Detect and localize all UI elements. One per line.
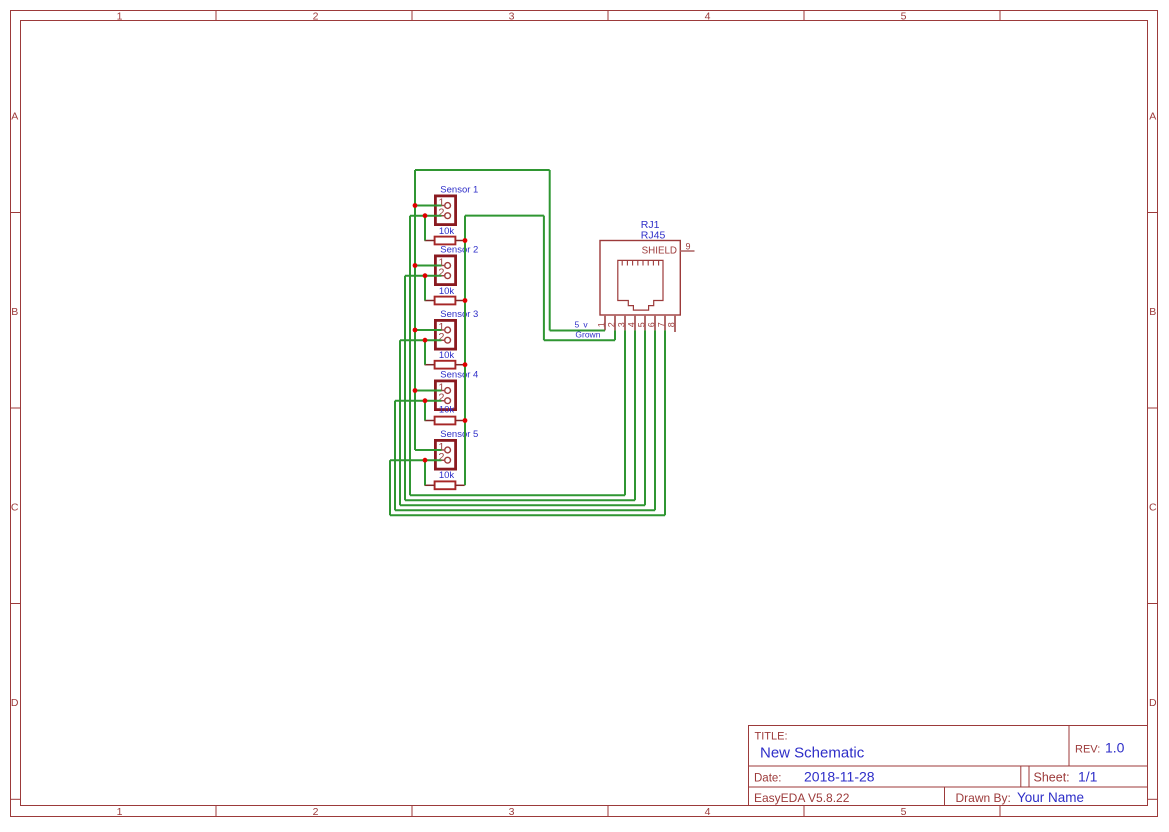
wire 5V to RJ45 pin1 bbox=[550, 330, 605, 332]
wire Sensor 3 signal bottom bbox=[400, 504, 645, 506]
junction Sensor 3 pin2 / R3 bbox=[423, 338, 428, 343]
svg-text:2018-11-28: 2018-11-28 bbox=[804, 769, 875, 785]
svg-text:5: 5 bbox=[901, 11, 907, 23]
junction Sensor 2 pin2 / R2 bbox=[423, 273, 428, 278]
wire Sensor 1 pin2 to R1 bbox=[424, 216, 426, 241]
wire Sensor 5 signal to RJ45 pin 7 bbox=[664, 330, 666, 515]
connector RJ1 RJ45 bbox=[600, 241, 680, 316]
wire Sensor 4 signal down bbox=[394, 401, 396, 511]
wire Sensor 4 pin2 horizontal bbox=[395, 400, 442, 402]
resistor R2 10k bbox=[425, 297, 465, 305]
wire Sensor 2 signal to RJ45 pin 4 bbox=[634, 330, 636, 500]
svg-text:Sheet:: Sheet: bbox=[1034, 771, 1070, 785]
svg-text:4: 4 bbox=[705, 806, 711, 818]
svg-text:10k: 10k bbox=[439, 286, 455, 297]
junction 5V / Sensor 4 pin1 bbox=[413, 388, 418, 393]
wire Sensor 1 signal down bbox=[409, 216, 411, 496]
wire 5V vertical bus bbox=[414, 170, 416, 450]
RJ45 pin numbers 1-8 bbox=[596, 322, 676, 327]
svg-text:9: 9 bbox=[686, 242, 691, 252]
svg-text:2: 2 bbox=[438, 332, 444, 344]
junction 5V / Sensor 3 pin1 bbox=[413, 328, 418, 333]
svg-text:8: 8 bbox=[666, 322, 676, 327]
wire GND horizontal bbox=[465, 215, 544, 217]
title block bbox=[749, 726, 1148, 806]
svg-text:Sensor 5: Sensor 5 bbox=[440, 429, 478, 440]
svg-text:5 v: 5 v bbox=[575, 319, 589, 329]
svg-text:Date:: Date: bbox=[754, 773, 782, 785]
wire 5V to Sensor 2 pin1 bbox=[415, 265, 442, 267]
wire Sensor 2 pin2 horizontal bbox=[405, 275, 442, 277]
svg-text:Your Name: Your Name bbox=[1017, 790, 1084, 805]
wire Sensor 2 signal bottom bbox=[405, 499, 635, 501]
junction GND / R2 bbox=[463, 298, 468, 303]
wire Sensor 5 signal down bbox=[389, 460, 391, 515]
connector P4 (Sensor 4) bbox=[435, 381, 455, 410]
svg-text:4: 4 bbox=[626, 322, 636, 327]
svg-text:2: 2 bbox=[438, 267, 444, 279]
wire Sensor 5 pin2 to R5 bbox=[424, 460, 426, 485]
svg-text:10k: 10k bbox=[439, 470, 455, 481]
svg-text:5: 5 bbox=[901, 806, 907, 818]
svg-text:RJ45: RJ45 bbox=[641, 230, 666, 242]
svg-text:C: C bbox=[1149, 501, 1157, 513]
svg-text:2: 2 bbox=[438, 452, 444, 464]
junction Sensor 4 pin2 / R4 bbox=[423, 398, 428, 403]
wire Sensor 5 signal bottom bbox=[390, 514, 665, 516]
junction 5V / Sensor 1 pin1 bbox=[413, 203, 418, 208]
wire 5V top horizontal bbox=[415, 169, 550, 171]
svg-text:SHIELD: SHIELD bbox=[642, 245, 677, 256]
wire Sensor 4 signal to RJ45 pin 6 bbox=[654, 330, 656, 510]
resistor R4 10k bbox=[425, 417, 465, 425]
wire Sensor 3 pin2 to R3 bbox=[424, 340, 426, 365]
junction Sensor 5 pin2 / R5 bbox=[423, 458, 428, 463]
connector P3 (Sensor 3) bbox=[435, 320, 455, 349]
svg-text:TITLE:: TITLE: bbox=[755, 731, 788, 743]
resistor R1 10k bbox=[425, 237, 465, 245]
connector P5 (Sensor 5) bbox=[435, 440, 455, 469]
svg-text:1: 1 bbox=[117, 806, 123, 818]
svg-text:New Schematic: New Schematic bbox=[760, 745, 865, 762]
svg-text:Sensor 2: Sensor 2 bbox=[440, 245, 478, 256]
junction 5V / Sensor 2 pin1 bbox=[413, 263, 418, 268]
RJ45 jack teeth bbox=[622, 260, 658, 265]
connector P2 (Sensor 2) bbox=[435, 256, 455, 285]
svg-text:C: C bbox=[11, 501, 19, 513]
svg-text:D: D bbox=[11, 697, 19, 709]
svg-text:B: B bbox=[11, 306, 18, 318]
svg-text:3: 3 bbox=[616, 322, 626, 327]
svg-text:3: 3 bbox=[509, 11, 515, 23]
wire GND vertical bus bbox=[464, 216, 466, 486]
wire Sensor 4 signal bottom bbox=[395, 509, 655, 511]
wire GND to RJ45 pin2 bbox=[544, 339, 615, 341]
svg-text:Sensor 1: Sensor 1 bbox=[440, 185, 478, 196]
svg-text:Sensor 4: Sensor 4 bbox=[440, 370, 478, 381]
junction GND / R3 bbox=[463, 362, 468, 367]
svg-text:6: 6 bbox=[646, 322, 656, 327]
svg-text:2: 2 bbox=[438, 207, 444, 219]
wire Sensor 5 pin2 horizontal bbox=[390, 459, 442, 461]
RJ45 pins 1-8 stubs bbox=[605, 316, 675, 332]
wire Sensor 1 pin2 horizontal bbox=[410, 215, 442, 217]
svg-text:10k: 10k bbox=[439, 350, 455, 361]
svg-text:REV:: REV: bbox=[1075, 744, 1100, 756]
svg-text:1/1: 1/1 bbox=[1078, 769, 1098, 785]
svg-text:7: 7 bbox=[656, 322, 666, 327]
svg-text:A: A bbox=[1149, 111, 1156, 123]
wire Sensor 4 pin2 to R4 bbox=[424, 401, 426, 421]
wire 5V to Sensor 1 pin1 bbox=[415, 205, 442, 207]
svg-text:Grown: Grown bbox=[575, 329, 600, 339]
svg-text:1: 1 bbox=[117, 11, 123, 23]
wire Sensor 2 signal down bbox=[404, 276, 406, 501]
labels RJ1 / RJ45 bbox=[641, 219, 666, 242]
svg-text:1.0: 1.0 bbox=[1105, 740, 1125, 756]
svg-text:3: 3 bbox=[509, 806, 515, 818]
junction Sensor 1 pin2 / R1 bbox=[423, 213, 428, 218]
svg-text:Sensor 3: Sensor 3 bbox=[440, 309, 478, 320]
svg-text:2: 2 bbox=[438, 392, 444, 404]
junction GND / R4 bbox=[463, 418, 468, 423]
svg-text:2: 2 bbox=[606, 322, 616, 327]
svg-text:4: 4 bbox=[705, 11, 711, 23]
resistor R3 10k bbox=[425, 361, 465, 369]
svg-text:Drawn By:: Drawn By: bbox=[956, 791, 1011, 805]
svg-text:2: 2 bbox=[313, 11, 319, 23]
wire 5V to Sensor 5 pin1 bbox=[415, 449, 442, 451]
wire 5V down to RJ45 bbox=[549, 170, 551, 331]
pin 9 SHIELD stub bbox=[680, 250, 694, 252]
svg-text:B: B bbox=[1149, 306, 1156, 318]
resistor R5 10k bbox=[425, 481, 465, 489]
wire 5V to Sensor 3 pin1 bbox=[415, 329, 442, 331]
svg-text:1: 1 bbox=[596, 322, 606, 327]
svg-text:10k: 10k bbox=[439, 404, 455, 415]
wire Sensor 3 signal to RJ45 pin 5 bbox=[644, 330, 646, 505]
connector P1 (Sensor 1) bbox=[435, 196, 455, 225]
svg-text:5: 5 bbox=[636, 322, 646, 327]
wire Sensor 1 signal bottom bbox=[410, 494, 625, 496]
svg-text:10k: 10k bbox=[439, 226, 455, 237]
wire GND down to RJ45 bbox=[543, 216, 545, 341]
wire 5V to Sensor 4 pin1 bbox=[415, 390, 442, 392]
wire Sensor 3 pin2 horizontal bbox=[400, 339, 442, 341]
wire Sensor 1 signal to RJ45 pin 3 bbox=[624, 330, 626, 495]
junction GND / R1 bbox=[463, 238, 468, 243]
wire GND pin2 drop bbox=[614, 330, 616, 340]
svg-text:D: D bbox=[1149, 697, 1157, 709]
svg-text:2: 2 bbox=[313, 806, 319, 818]
svg-text:EasyEDA V5.8.22: EasyEDA V5.8.22 bbox=[754, 791, 850, 805]
wire Sensor 2 pin2 to R2 bbox=[424, 276, 426, 301]
svg-text:A: A bbox=[11, 111, 18, 123]
wire Sensor 3 signal down bbox=[399, 340, 401, 505]
